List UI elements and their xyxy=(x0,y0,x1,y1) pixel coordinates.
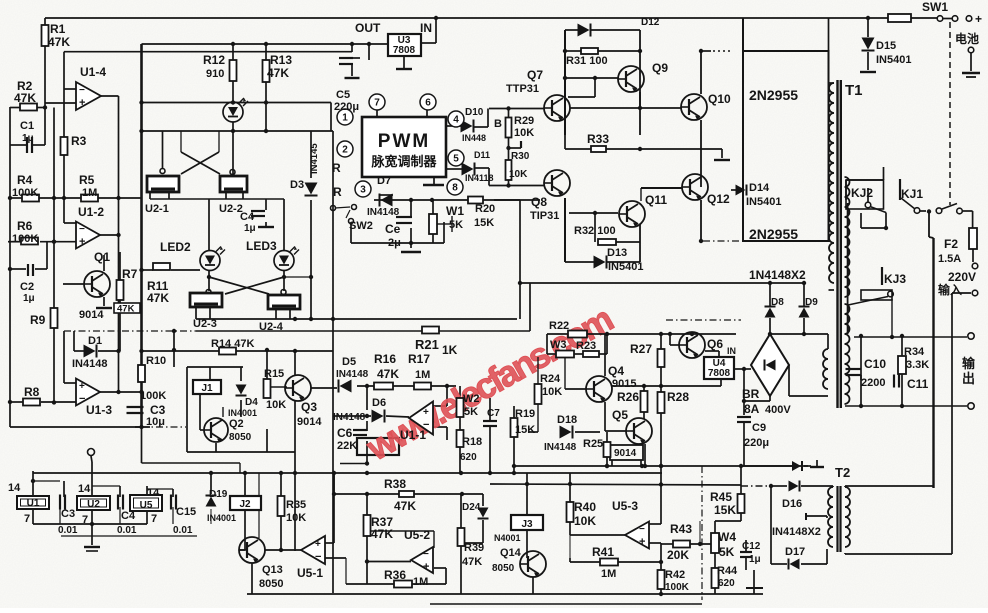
svg-text:10K: 10K xyxy=(509,169,528,180)
svg-text:7808: 7808 xyxy=(393,45,416,56)
svg-text:D3: D3 xyxy=(290,179,304,191)
svg-text:3.3K: 3.3K xyxy=(906,359,929,371)
svg-text:LED2: LED2 xyxy=(160,240,191,254)
svg-text:Q14: Q14 xyxy=(500,547,522,559)
svg-text:C11: C11 xyxy=(907,377,929,391)
svg-text:14: 14 xyxy=(78,483,91,495)
svg-text:U5-2: U5-2 xyxy=(404,528,430,542)
svg-text:Q10: Q10 xyxy=(708,92,731,106)
svg-text:2N2955: 2N2955 xyxy=(749,226,798,242)
svg-text:220μ: 220μ xyxy=(334,101,359,113)
svg-text:R12: R12 xyxy=(203,53,225,67)
svg-text:出: 出 xyxy=(962,371,975,386)
svg-text:C6: C6 xyxy=(337,426,353,440)
svg-text:8050: 8050 xyxy=(229,432,252,443)
svg-text:R28: R28 xyxy=(667,390,689,404)
svg-text:KJ3: KJ3 xyxy=(884,272,906,286)
svg-text:R29: R29 xyxy=(514,115,534,127)
svg-text:D15: D15 xyxy=(876,40,896,52)
svg-text:100K: 100K xyxy=(12,187,38,199)
svg-text:6: 6 xyxy=(425,98,431,109)
svg-text:2μ: 2μ xyxy=(388,237,401,249)
svg-text:0.01: 0.01 xyxy=(58,525,78,536)
svg-text:Q1: Q1 xyxy=(94,250,110,264)
svg-text:R14 47K: R14 47K xyxy=(211,338,254,350)
svg-text:620: 620 xyxy=(718,578,735,589)
svg-text:D24: D24 xyxy=(462,502,481,513)
svg-text:R1: R1 xyxy=(50,22,66,36)
svg-text:5K: 5K xyxy=(449,219,463,231)
svg-text:1.5A: 1.5A xyxy=(938,253,961,265)
svg-text:400V: 400V xyxy=(765,404,791,416)
svg-text:IN4145: IN4145 xyxy=(309,143,320,174)
svg-text:D16: D16 xyxy=(782,498,802,510)
svg-text:KJ2: KJ2 xyxy=(851,186,873,200)
svg-text:R35: R35 xyxy=(286,499,306,511)
svg-text:2200: 2200 xyxy=(861,377,885,389)
svg-text:IN4118: IN4118 xyxy=(465,173,494,183)
svg-text:9014: 9014 xyxy=(297,416,322,428)
svg-text:R7: R7 xyxy=(122,267,138,281)
svg-text:C10: C10 xyxy=(864,357,886,371)
svg-text:R19: R19 xyxy=(515,408,535,420)
svg-text:2N2955: 2N2955 xyxy=(749,87,798,103)
svg-text:Q13: Q13 xyxy=(262,564,283,576)
svg-text:KJ1: KJ1 xyxy=(901,187,923,201)
svg-text:47K: 47K xyxy=(394,499,416,513)
svg-text:−: − xyxy=(79,393,85,405)
svg-text:脉宽调制器: 脉宽调制器 xyxy=(370,154,437,169)
svg-text:3: 3 xyxy=(360,185,366,196)
svg-text:R16: R16 xyxy=(374,352,396,366)
svg-text:C1: C1 xyxy=(20,120,34,132)
svg-text:IN5401: IN5401 xyxy=(876,54,911,66)
svg-text:R39: R39 xyxy=(464,542,484,554)
svg-text:IN4148X2: IN4148X2 xyxy=(772,526,821,538)
svg-text:15K: 15K xyxy=(714,503,736,517)
svg-text:−: − xyxy=(639,524,645,535)
svg-text:47K: 47K xyxy=(147,291,169,305)
svg-text:1M: 1M xyxy=(601,568,616,580)
svg-text:10K: 10K xyxy=(542,386,562,398)
svg-text:U1-3: U1-3 xyxy=(86,403,112,417)
svg-text:9014: 9014 xyxy=(79,309,104,321)
svg-text:R40: R40 xyxy=(574,500,596,514)
svg-text:Q2: Q2 xyxy=(229,418,244,430)
svg-text:U1: U1 xyxy=(27,498,40,509)
svg-text:7: 7 xyxy=(82,514,88,526)
svg-text:1M: 1M xyxy=(413,576,428,588)
svg-text:8A: 8A xyxy=(744,402,760,416)
svg-text:U2: U2 xyxy=(87,499,100,510)
svg-text:IN4148: IN4148 xyxy=(336,369,369,380)
svg-text:C5: C5 xyxy=(336,89,350,101)
svg-text:U5-3: U5-3 xyxy=(612,499,638,513)
svg-text:R34: R34 xyxy=(904,346,925,358)
svg-text:N4001: N4001 xyxy=(494,533,521,543)
svg-text:R45: R45 xyxy=(710,490,732,504)
svg-text:8050: 8050 xyxy=(259,578,283,590)
svg-text:IN4001: IN4001 xyxy=(228,408,257,418)
svg-text:10K: 10K xyxy=(514,127,534,139)
svg-text:9015: 9015 xyxy=(612,378,636,390)
svg-text:IN4148: IN4148 xyxy=(72,358,107,370)
svg-text:R36: R36 xyxy=(384,568,406,582)
svg-text:R27: R27 xyxy=(630,342,652,356)
svg-text:输: 输 xyxy=(962,356,976,371)
svg-text:LED3: LED3 xyxy=(246,239,277,253)
svg-text:5K: 5K xyxy=(464,406,478,418)
svg-text:R44: R44 xyxy=(717,565,738,577)
svg-text:47K: 47K xyxy=(377,367,399,381)
svg-text:U5-1: U5-1 xyxy=(297,566,323,580)
svg-text:C15: C15 xyxy=(176,506,196,518)
svg-text:R22: R22 xyxy=(549,320,569,332)
svg-text:OUT: OUT xyxy=(355,21,381,35)
svg-text:10K: 10K xyxy=(574,514,596,528)
svg-text:47K: 47K xyxy=(48,35,70,49)
svg-text:R42: R42 xyxy=(665,569,685,581)
svg-text:1μ: 1μ xyxy=(22,133,34,144)
svg-text:B: B xyxy=(494,118,502,130)
svg-text:47K: 47K xyxy=(117,304,135,315)
svg-text:U2-3: U2-3 xyxy=(193,318,217,330)
svg-text:47K: 47K xyxy=(462,556,482,568)
svg-text:10K: 10K xyxy=(286,512,306,524)
svg-text:Q3: Q3 xyxy=(301,400,317,414)
svg-text:0.01: 0.01 xyxy=(117,525,137,536)
svg-text:R13: R13 xyxy=(270,53,292,67)
svg-text:U5: U5 xyxy=(140,500,153,511)
svg-text:1μ: 1μ xyxy=(244,223,256,234)
svg-text:14: 14 xyxy=(147,487,160,499)
svg-text:−: − xyxy=(315,551,321,563)
svg-text:IN4148: IN4148 xyxy=(367,207,400,218)
svg-text:W4: W4 xyxy=(718,530,736,544)
svg-text:7808: 7808 xyxy=(708,368,731,379)
svg-text:D17: D17 xyxy=(785,546,805,558)
svg-text:+: + xyxy=(79,381,85,392)
svg-text:15K: 15K xyxy=(515,424,535,436)
svg-text:R18: R18 xyxy=(462,436,482,448)
svg-text:1μ: 1μ xyxy=(23,293,35,304)
svg-text:+: + xyxy=(639,536,645,548)
svg-text:+: + xyxy=(975,12,982,26)
svg-text:D5: D5 xyxy=(342,356,356,368)
svg-text:D12: D12 xyxy=(641,17,660,28)
svg-text:10μ: 10μ xyxy=(146,416,165,428)
svg-text:R32 100: R32 100 xyxy=(574,225,616,237)
svg-text:IN4148: IN4148 xyxy=(333,412,366,423)
svg-text:7: 7 xyxy=(374,98,380,109)
svg-text:R3: R3 xyxy=(71,134,87,148)
svg-text:5K: 5K xyxy=(719,545,735,559)
svg-text:IN448: IN448 xyxy=(462,133,486,143)
svg-text:J1: J1 xyxy=(201,383,213,394)
svg-text:Q7: Q7 xyxy=(527,68,543,82)
svg-text:Q5: Q5 xyxy=(612,408,628,422)
svg-text:Q8: Q8 xyxy=(531,195,547,209)
svg-text:R30: R30 xyxy=(511,151,530,162)
svg-text:C9: C9 xyxy=(752,422,766,434)
svg-text:IN5401: IN5401 xyxy=(746,196,781,208)
svg-text:D13: D13 xyxy=(607,247,627,259)
svg-text:T1: T1 xyxy=(845,82,863,99)
svg-text:0.01: 0.01 xyxy=(173,525,193,536)
svg-text:W3: W3 xyxy=(550,339,567,351)
svg-text:R4: R4 xyxy=(17,173,33,187)
svg-text:T2: T2 xyxy=(835,465,850,480)
svg-text:Q11: Q11 xyxy=(645,193,667,207)
svg-text:F2: F2 xyxy=(944,237,958,251)
svg-text:R43: R43 xyxy=(670,522,692,536)
svg-text:1M: 1M xyxy=(82,187,97,199)
svg-text:C3: C3 xyxy=(150,403,166,417)
svg-text:1μ: 1μ xyxy=(749,554,761,565)
svg-text:U1-4: U1-4 xyxy=(80,65,106,79)
svg-text:R23: R23 xyxy=(576,340,596,352)
svg-text:620: 620 xyxy=(460,452,477,463)
svg-text:C2: C2 xyxy=(20,281,34,293)
svg-text:1: 1 xyxy=(342,113,348,124)
svg-text:J3: J3 xyxy=(521,519,533,530)
svg-text:C3: C3 xyxy=(61,508,75,520)
svg-text:5: 5 xyxy=(453,154,459,165)
svg-text:+: + xyxy=(315,539,321,550)
svg-text:7: 7 xyxy=(151,513,157,525)
svg-text:R10: R10 xyxy=(146,355,166,367)
svg-text:IN: IN xyxy=(420,21,432,35)
svg-text:100K: 100K xyxy=(665,582,690,593)
svg-text:220V: 220V xyxy=(948,270,976,284)
svg-text:D14: D14 xyxy=(749,182,770,194)
svg-text:−: − xyxy=(79,224,85,235)
svg-text:4: 4 xyxy=(453,115,459,126)
svg-text:−: − xyxy=(79,85,85,96)
svg-text:D11: D11 xyxy=(474,150,490,160)
svg-text:D18: D18 xyxy=(557,414,577,426)
svg-text:D4: D4 xyxy=(245,397,258,408)
svg-text:TIP31: TIP31 xyxy=(530,210,559,222)
svg-text:47K: 47K xyxy=(267,66,289,80)
svg-text:14: 14 xyxy=(8,482,21,494)
svg-text:R41: R41 xyxy=(592,545,614,559)
svg-text:9014: 9014 xyxy=(614,448,637,459)
svg-text:R20: R20 xyxy=(475,203,495,215)
svg-text:Ce: Ce xyxy=(385,222,401,236)
svg-text:U2-1: U2-1 xyxy=(145,203,169,215)
svg-text:220μ: 220μ xyxy=(744,437,769,449)
svg-text:+: + xyxy=(79,236,85,248)
svg-text:R33: R33 xyxy=(587,132,609,146)
svg-text:SW2: SW2 xyxy=(349,220,373,232)
svg-text:R9: R9 xyxy=(30,313,46,327)
svg-text:J2: J2 xyxy=(239,499,251,510)
svg-text:2: 2 xyxy=(342,145,348,156)
svg-text:R31 100: R31 100 xyxy=(566,55,608,67)
svg-text:D10: D10 xyxy=(465,107,484,118)
svg-text:20K: 20K xyxy=(667,548,689,562)
svg-text:IN: IN xyxy=(727,346,736,356)
svg-text:R21: R21 xyxy=(415,337,439,352)
svg-text:TTP31: TTP31 xyxy=(506,83,539,95)
svg-text:7: 7 xyxy=(24,513,30,525)
svg-text:100K: 100K xyxy=(12,233,38,245)
svg-text:R: R xyxy=(333,185,342,199)
svg-text:U2-4: U2-4 xyxy=(259,321,284,333)
svg-text:Q4: Q4 xyxy=(608,364,624,378)
svg-text:100K: 100K xyxy=(140,390,166,402)
svg-text:1K: 1K xyxy=(442,343,458,357)
svg-text:47K: 47K xyxy=(14,91,36,105)
svg-text:C12: C12 xyxy=(742,541,761,552)
svg-text:+: + xyxy=(423,407,429,418)
svg-text:R17: R17 xyxy=(408,352,430,366)
svg-text:C7: C7 xyxy=(487,408,500,419)
svg-text:R25: R25 xyxy=(583,438,603,450)
svg-text:SW1: SW1 xyxy=(922,0,948,14)
svg-text:+: + xyxy=(79,97,85,109)
svg-text:R24: R24 xyxy=(540,373,561,385)
svg-text:D6: D6 xyxy=(372,397,386,409)
svg-text:D1: D1 xyxy=(88,335,102,347)
svg-text:+: + xyxy=(423,561,429,573)
svg-text:PWM: PWM xyxy=(378,131,430,152)
svg-text:910: 910 xyxy=(206,68,224,80)
svg-text:R26: R26 xyxy=(617,390,639,404)
svg-text:47K: 47K xyxy=(371,527,393,541)
svg-text:C4: C4 xyxy=(121,510,136,522)
svg-text:15K: 15K xyxy=(474,217,494,229)
svg-text:R15: R15 xyxy=(264,368,284,380)
svg-text:1N4148X2: 1N4148X2 xyxy=(749,268,806,282)
svg-text:BR: BR xyxy=(742,387,760,401)
svg-text:R38: R38 xyxy=(384,477,406,491)
svg-text:Q9: Q9 xyxy=(652,61,668,75)
svg-text:10K: 10K xyxy=(266,399,286,411)
svg-text:8: 8 xyxy=(452,183,458,194)
svg-text:IN4001: IN4001 xyxy=(207,513,236,523)
svg-text:C4: C4 xyxy=(240,211,255,223)
svg-text:D19: D19 xyxy=(209,489,228,500)
svg-text:IN5401: IN5401 xyxy=(608,261,643,273)
svg-text:Q6: Q6 xyxy=(707,337,723,351)
svg-text:22K: 22K xyxy=(337,440,357,452)
svg-text:R: R xyxy=(332,161,341,175)
svg-text:U1-1: U1-1 xyxy=(400,428,426,442)
svg-text:W1: W1 xyxy=(446,204,464,218)
svg-text:电池: 电池 xyxy=(955,31,979,46)
svg-text:Q12: Q12 xyxy=(707,192,730,206)
svg-text:R5: R5 xyxy=(79,173,95,187)
svg-text:IN4148: IN4148 xyxy=(544,442,577,453)
svg-text:输入: 输入 xyxy=(938,282,962,297)
svg-text:−: − xyxy=(423,549,429,560)
svg-text:R6: R6 xyxy=(17,219,33,233)
svg-text:D7: D7 xyxy=(377,175,391,187)
svg-text:8050: 8050 xyxy=(492,563,515,574)
svg-text:U1-2: U1-2 xyxy=(78,205,104,219)
svg-text:R8: R8 xyxy=(24,385,40,399)
svg-text:1M: 1M xyxy=(415,369,430,381)
svg-text:W2: W2 xyxy=(463,393,480,405)
